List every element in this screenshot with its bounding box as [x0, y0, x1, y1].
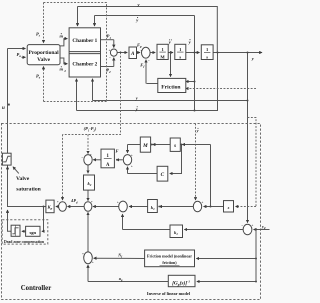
svg-text:C: C	[161, 172, 165, 178]
svg-text:m: m	[60, 34, 64, 39]
svg-text:+: +	[109, 48, 111, 52]
svg-text:Chamber 1: Chamber 1	[72, 38, 97, 44]
svg-text:u: u	[2, 106, 5, 111]
svg-text:+: +	[57, 200, 59, 204]
svg-text:y: y	[135, 95, 138, 100]
svg-text:+: +	[117, 200, 119, 204]
svg-text:+: +	[82, 252, 84, 256]
svg-text:+: +	[92, 260, 94, 264]
svg-text:A: A	[130, 51, 135, 57]
svg-text:F: F	[116, 148, 119, 153]
svg-text:Chamber 2: Chamber 2	[72, 61, 97, 67]
svg-text:2: 2	[63, 69, 66, 73]
svg-text:s: s	[179, 54, 181, 59]
svg-text:Controller: Controller	[21, 285, 51, 292]
svg-text:y: y	[135, 107, 138, 112]
svg-text:−: −	[241, 223, 243, 227]
svg-text:s: s	[173, 143, 176, 149]
svg-text:s: s	[227, 205, 230, 210]
svg-text:+: +	[140, 49, 142, 53]
svg-text:Proportional: Proportional	[29, 50, 60, 56]
svg-text:M: M	[160, 54, 165, 59]
svg-text:+: +	[251, 223, 253, 227]
svg-text:Valve: Valve	[37, 57, 50, 63]
svg-text:A: A	[106, 163, 110, 168]
svg-text:M: M	[142, 143, 148, 149]
svg-text:Friction: Friction	[161, 85, 181, 91]
svg-text:friction): friction)	[162, 260, 177, 265]
svg-text:−: −	[148, 58, 150, 62]
svg-text:+: +	[91, 200, 93, 204]
svg-text:+: +	[131, 164, 133, 168]
svg-text:s: s	[206, 55, 208, 60]
svg-text:−: −	[81, 156, 83, 160]
svg-text:y: y	[196, 128, 199, 133]
svg-text:+: +	[131, 153, 133, 157]
svg-text:saturation: saturation	[16, 187, 41, 193]
svg-text:Dead zone compensation: Dead zone compensation	[4, 240, 45, 244]
svg-text:+: +	[201, 200, 203, 204]
svg-text:+: +	[90, 153, 92, 157]
svg-text:−: −	[109, 56, 111, 60]
svg-text:Inverse of linear model: Inverse of linear model	[147, 291, 191, 296]
svg-text:m: m	[60, 67, 64, 72]
svg-text:Friction model (nonlinear: Friction model (nonlinear	[147, 254, 192, 259]
svg-text:Valve: Valve	[16, 176, 30, 182]
svg-text:sgn: sgn	[29, 230, 36, 235]
